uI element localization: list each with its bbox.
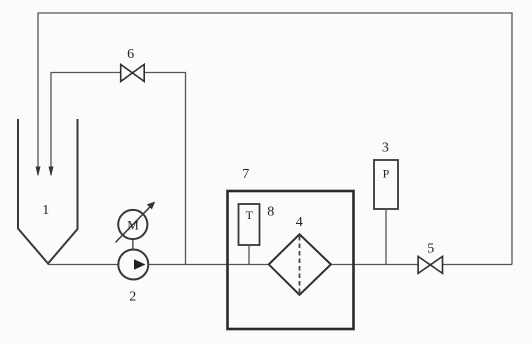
wire: top return pipe [38, 13, 512, 265]
box 7 (test chamber) [228, 191, 354, 329]
wire: bypass branch through valve 6 [51, 73, 186, 265]
svg-text:7: 7 [242, 167, 249, 182]
svg-text:1: 1 [42, 203, 49, 218]
arrowhead into tank (right) [49, 167, 54, 177]
pressure gauge 3 rect [374, 160, 398, 209]
svg-text:3: 3 [382, 141, 389, 156]
svg-text:M: M [127, 218, 139, 233]
filter element dashed line [299, 236, 301, 293]
pump triangle [134, 259, 146, 270]
valve 5 [418, 256, 442, 273]
filter 4 diamond [269, 234, 331, 294]
svg-text:8: 8 [267, 205, 274, 220]
wire: T stem [248, 245, 250, 265]
thermometer T8 rect [239, 204, 260, 245]
valve 6 [121, 64, 145, 81]
svg-text:P: P [383, 167, 390, 181]
svg-text:T: T [246, 208, 254, 222]
svg-text:5: 5 [427, 242, 434, 257]
svg-text:2: 2 [129, 290, 136, 305]
motor U M circle [118, 210, 147, 239]
motor arrow (variable) [116, 205, 153, 243]
pump 2 circle [118, 250, 148, 280]
wire: gauge stem [385, 209, 387, 265]
wire: motor-pump stub [132, 239, 134, 250]
tank 1 [18, 119, 78, 264]
arrowhead into tank (left) [36, 167, 41, 177]
wire: main horizontal pipe [48, 264, 512, 266]
svg-text:6: 6 [127, 47, 134, 62]
svg-text:4: 4 [296, 215, 303, 230]
